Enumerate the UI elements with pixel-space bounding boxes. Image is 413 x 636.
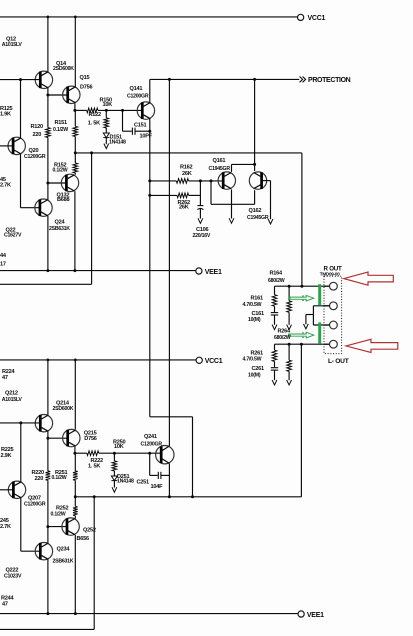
svg-text:2.7K: 2.7K xyxy=(0,524,11,530)
svg-text:2SD600K: 2SD600K xyxy=(53,66,74,72)
svg-text:1N4148: 1N4148 xyxy=(109,140,126,146)
svg-text:680/2W: 680/2W xyxy=(268,278,285,284)
svg-text:C251: C251 xyxy=(137,479,150,485)
svg-text:2.7K: 2.7K xyxy=(0,182,11,188)
svg-text:1.9K: 1.9K xyxy=(0,111,11,117)
svg-text:Q162: Q162 xyxy=(249,208,262,214)
svg-text:VEE1: VEE1 xyxy=(307,612,324,619)
svg-text:680/2W: 680/2W xyxy=(274,335,291,341)
svg-text:10(M): 10(M) xyxy=(248,317,261,323)
svg-text:10PF: 10PF xyxy=(140,134,153,140)
svg-text:C1627V: C1627V xyxy=(4,233,22,239)
svg-text:1N4148: 1N4148 xyxy=(117,479,134,485)
svg-text:2SB631K: 2SB631K xyxy=(49,226,70,232)
svg-text:0.1/2W: 0.1/2W xyxy=(53,127,68,133)
svg-text:C151: C151 xyxy=(134,123,147,129)
svg-text:0.1/2W: 0.1/2W xyxy=(51,512,66,518)
svg-text:C1945GR: C1945GR xyxy=(247,215,269,221)
svg-text:R244: R244 xyxy=(1,595,15,601)
svg-text:Q241: Q241 xyxy=(144,434,157,440)
svg-text:R264: R264 xyxy=(278,329,292,335)
svg-text:104F: 104F xyxy=(151,484,164,490)
svg-text:D756: D756 xyxy=(80,84,93,90)
svg-text:Q212: Q212 xyxy=(5,391,18,397)
svg-text:R164: R164 xyxy=(270,271,284,277)
svg-text:C261: C261 xyxy=(252,366,265,372)
svg-text:R224: R224 xyxy=(2,369,16,375)
svg-text:10K: 10K xyxy=(103,102,113,108)
svg-text:Q141: Q141 xyxy=(130,86,143,92)
svg-text:220/16V: 220/16V xyxy=(193,233,211,239)
svg-text:VCC1: VCC1 xyxy=(205,358,223,365)
svg-text:D756: D756 xyxy=(84,436,97,442)
svg-text:0.1/2W: 0.1/2W xyxy=(52,475,67,481)
svg-text:10K: 10K xyxy=(114,444,124,450)
svg-text:C1023V: C1023V xyxy=(4,574,22,580)
svg-text:26K: 26K xyxy=(179,205,189,211)
svg-text:Q24: Q24 xyxy=(55,219,66,225)
svg-text:1. 5K: 1. 5K xyxy=(88,121,100,127)
svg-text:R151: R151 xyxy=(55,120,68,126)
svg-text:A1015LV: A1015LV xyxy=(2,42,23,48)
svg-text:R161: R161 xyxy=(251,296,264,302)
svg-text:2.9K: 2.9K xyxy=(1,453,12,459)
svg-text:4.7/0.5W: 4.7/0.5W xyxy=(243,356,262,362)
svg-text:47: 47 xyxy=(2,375,8,381)
svg-text:2SD600K: 2SD600K xyxy=(53,406,74,412)
svg-text:R122: R122 xyxy=(89,112,102,118)
svg-text:Q234: Q234 xyxy=(57,546,71,552)
svg-text:1. 5K: 1. 5K xyxy=(88,464,100,470)
svg-text:L- OUT: L- OUT xyxy=(328,358,349,365)
svg-text:C1200GR: C1200GR xyxy=(24,501,46,507)
svg-text:B688: B688 xyxy=(57,197,70,203)
svg-text:0.1/2W: 0.1/2W xyxy=(53,167,68,173)
svg-text:C1200GR: C1200GR xyxy=(141,441,163,447)
svg-text:26K: 26K xyxy=(182,171,192,177)
svg-text:C1200GR: C1200GR xyxy=(24,154,46,160)
svg-text:R162: R162 xyxy=(180,165,193,171)
svg-text:220: 220 xyxy=(33,132,42,138)
svg-text:Q15: Q15 xyxy=(80,75,90,81)
svg-text:C1200GR: C1200GR xyxy=(127,94,149,100)
svg-text:220: 220 xyxy=(35,476,44,482)
svg-text:R120: R120 xyxy=(31,124,44,130)
svg-text:Q252: Q252 xyxy=(83,527,96,533)
svg-text:10(M): 10(M) xyxy=(248,372,261,378)
svg-text:PROTECTION: PROTECTION xyxy=(308,77,351,84)
svg-text:VEE1: VEE1 xyxy=(205,269,222,276)
svg-text:2SB631K: 2SB631K xyxy=(53,558,74,564)
svg-text:17: 17 xyxy=(0,261,6,267)
svg-text:C1945GR: C1945GR xyxy=(209,166,231,172)
svg-text:VCC1: VCC1 xyxy=(308,15,326,22)
svg-text:TMD09-00: TMD09-00 xyxy=(320,271,340,276)
svg-text:4.7/0.5W: 4.7/0.5W xyxy=(243,302,262,308)
svg-text:B656: B656 xyxy=(77,536,90,542)
svg-text:Q161: Q161 xyxy=(213,158,226,164)
svg-text:A1015LV: A1015LV xyxy=(2,397,23,403)
svg-text:47: 47 xyxy=(2,602,8,608)
